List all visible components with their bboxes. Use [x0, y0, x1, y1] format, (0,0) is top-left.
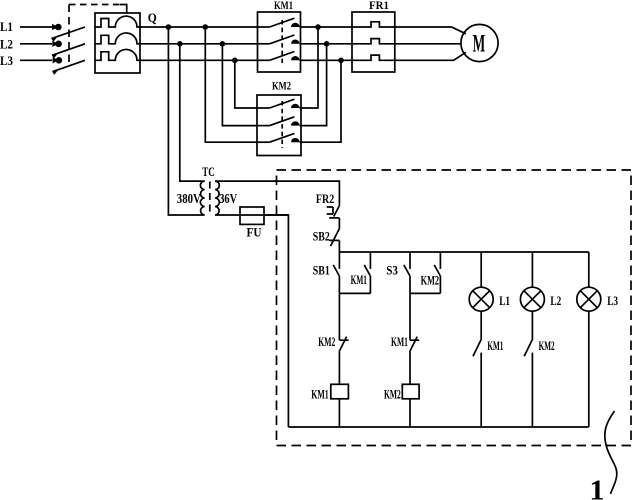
transformer TC secondary winding: [215, 181, 219, 215]
wire row2 KM1 to FR1: [301, 43, 353, 45]
contactor KM1 box: [258, 12, 301, 72]
svg-text:FU: FU: [247, 224, 263, 239]
breaker Q box: [95, 13, 140, 73]
wire bus row 2 (Q to KM1): [140, 43, 258, 45]
svg-text:KM1: KM1: [487, 338, 503, 353]
switch Q pole 3 blade: [52, 60, 85, 75]
svg-text:KM1: KM1: [311, 386, 329, 401]
wire to KM1 coil: [338, 351, 340, 384]
svg-text:FR2: FR2: [316, 191, 334, 206]
contact KM1 NC (interlock): [410, 337, 419, 351]
contactor KM2 contact 2: [257, 117, 301, 126]
wire row1 KM1 to FR1: [301, 26, 353, 28]
fuse FU box: [240, 207, 264, 224]
wire KM2 output 3 up to row3: [301, 60, 341, 142]
wire to KM2 coil: [409, 351, 411, 384]
svg-text:KM1: KM1: [391, 334, 408, 349]
contact KM1 aux (NO, self-hold): [364, 252, 370, 293]
wire FR1 to motor row1: [395, 27, 466, 34]
lamp L3: [577, 287, 601, 311]
svg-text:L3: L3: [0, 53, 13, 68]
contact KM2 (NO, lamp L2): [524, 339, 532, 427]
breaker Q pole 3: [95, 49, 140, 60]
switch S3 (NO): [404, 252, 410, 293]
coil KM1: [331, 384, 349, 399]
switch Q mechanical linkage (dashed): [69, 5, 127, 64]
switch Q pole 2 blade: [52, 44, 85, 59]
contact KM1 (NO, lamp L1): [473, 339, 481, 427]
motor M: [461, 24, 498, 61]
wire lamp L1 to contact: [480, 311, 482, 339]
wire FU to control circuit bottom rail: [264, 215, 288, 427]
wire row1 dot down to TC primary bottom: [168, 27, 204, 215]
thermal relay FR1 box: [352, 12, 395, 72]
wire FR2 to SB2: [338, 218, 340, 229]
wire lamp L2 to contact: [531, 311, 533, 339]
junction dot row1 b: [203, 24, 209, 30]
svg-text:KM1: KM1: [274, 0, 293, 12]
svg-text:SB2: SB2: [313, 228, 330, 243]
junction dot row1 a: [166, 24, 172, 30]
switch Q pole 1 blade: [52, 27, 86, 42]
wire L3 input: [20, 59, 52, 61]
lamp L2: [520, 287, 544, 311]
switch Q pole 1 terminal dot: [52, 24, 62, 31]
svg-text:SB1: SB1: [313, 263, 330, 278]
svg-text:FR1: FR1: [369, 0, 389, 12]
contactor KM2 box: [257, 95, 301, 156]
thermal relay FR1 heater 2: [352, 39, 395, 44]
breaker Q pole 1: [95, 16, 140, 27]
transformer TC primary winding: [200, 181, 204, 215]
junction dot row2 a: [177, 41, 183, 47]
svg-text:L1: L1: [499, 293, 510, 308]
breaker Q pole 2: [95, 33, 140, 44]
contactor KM2 linkage (dashed): [281, 101, 283, 148]
svg-text:KM2: KM2: [384, 386, 401, 401]
callout squiggle: [605, 411, 617, 494]
svg-text:KM2: KM2: [272, 80, 291, 92]
svg-text:M: M: [473, 31, 486, 58]
svg-text:Q: Q: [148, 10, 157, 25]
wire branch1 down: [338, 293, 340, 340]
pushbutton SB1 (NO): [333, 252, 339, 293]
wire bus row 3 (Q to KM1): [140, 59, 258, 61]
wire lamp L2 branch top: [531, 252, 533, 287]
switch Q pole 3 terminal dot: [53, 57, 63, 64]
control circuit dashed boundary box: [277, 170, 632, 446]
contactor KM2 contact 3: [257, 133, 301, 142]
wire row3 KM1 to FR1: [301, 59, 353, 61]
coil KM2: [402, 384, 419, 399]
svg-text:TC: TC: [202, 165, 215, 179]
wire TC secondary top to control circuit: [215, 181, 339, 206]
switch Q pole 2 terminal dot: [52, 41, 62, 48]
wire lamp L1 branch top: [480, 252, 482, 287]
svg-text:1: 1: [590, 476, 605, 500]
junction dot row3 a: [232, 58, 238, 64]
wire L2 input: [20, 43, 52, 45]
wire KM2 output 2 up to row2: [301, 44, 327, 126]
svg-text:380V: 380V: [177, 192, 201, 207]
svg-text:L2: L2: [550, 293, 561, 308]
pushbutton SB2 (NC): [329, 229, 339, 247]
wire KM2 output 1 up to row1: [301, 27, 318, 108]
contactor KM1 contact 2: [258, 35, 301, 44]
wire TC secondary bottom through FU: [215, 214, 288, 216]
svg-text:KM2: KM2: [539, 338, 555, 353]
wire row3 dot to KM2 input 1: [235, 60, 257, 108]
svg-text:KM2: KM2: [421, 273, 440, 288]
wire S3/KM2 join: [410, 292, 440, 294]
thermal relay contact FR2 (NC): [327, 206, 340, 218]
wire row2 dot down to TC primary top: [180, 44, 205, 181]
wire SB1/KM1 join: [339, 292, 370, 294]
wire SB2 to rail: [338, 240, 340, 252]
svg-text:S3: S3: [386, 263, 398, 278]
contactor KM1 contact 3: [258, 52, 301, 61]
contactor KM1 contact 1: [258, 18, 301, 27]
wire FR1 to motor row2: [395, 43, 461, 45]
svg-text:L1: L1: [0, 19, 13, 34]
junction dot row2 b: [220, 41, 226, 47]
transformer TC core (dashed): [209, 182, 211, 214]
wire lamp L3 branch: [588, 252, 590, 287]
svg-text:L3: L3: [607, 293, 618, 308]
thermal relay FR1 heater 1: [352, 22, 395, 27]
wire L1 input: [20, 26, 52, 28]
thermal relay FR1 heater 3: [352, 55, 395, 60]
wire bus row 1 (Q to KM1): [140, 26, 258, 28]
svg-text:KM2: KM2: [318, 334, 335, 349]
svg-text:KM1: KM1: [351, 272, 367, 287]
lamp L1: [469, 287, 493, 311]
wire KM1 coil to bottom rail: [338, 399, 340, 427]
wire control bottom rail: [288, 426, 588, 428]
junction dot row2 c (after KM1): [324, 41, 330, 47]
contactor KM1 linkage (dashed): [281, 20, 283, 65]
contact KM2 NC (interlock): [339, 337, 348, 351]
svg-text:L2: L2: [0, 37, 13, 52]
wire row2b dot to KM2 input 2: [222, 44, 257, 126]
wire lamp L3 down: [588, 311, 590, 427]
junction dot row1 c (after KM1): [315, 24, 321, 30]
wire FR1 to motor row3: [395, 52, 466, 60]
wire KM2 coil to bottom rail: [409, 399, 411, 427]
wire row1b dot to KM2 input 3: [205, 27, 257, 142]
svg-text:36V: 36V: [219, 192, 237, 207]
wire control rail: [339, 251, 588, 253]
wire branch2 down: [409, 293, 411, 340]
contact KM2 aux (NO, self-hold): [434, 252, 440, 293]
contactor KM2 contact 1: [257, 99, 301, 108]
junction dot row3 c (after KM1): [338, 58, 344, 64]
